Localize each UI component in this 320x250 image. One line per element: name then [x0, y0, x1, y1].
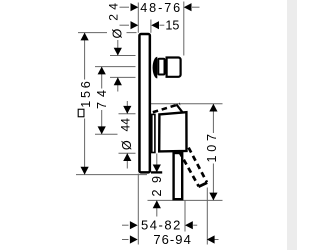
ext line dia24 top: [110, 55, 136, 57]
svg-text:15: 15: [165, 19, 179, 33]
dim line 74: [101, 67, 103, 135]
dim line 29: [156, 154, 158, 217]
lever grip: [174, 153, 183, 199]
arrow 54-82 right: [185, 221, 193, 229]
tail 48-76 right: [192, 6, 200, 8]
wall ext line below plate: [137, 174, 139, 245]
wall plate side profile: [139, 34, 149, 172]
tail 15 to text: [160, 24, 165, 26]
scrollbar strip: [287, 0, 297, 250]
svg-text:76-94: 76-94: [153, 232, 190, 247]
ext line knob axis: [95, 66, 136, 68]
ext line bottom common: [148, 199, 223, 201]
svg-text:24: 24: [106, 3, 120, 21]
lever rosette on plate: [152, 114, 155, 152]
arrow dia24 bottom: [114, 77, 122, 85]
arrow 76-94 left: [130, 235, 138, 243]
dashed swung handle top edge: [153, 104, 180, 112]
ext line sq156 top: [78, 32, 137, 34]
arrow dia24 top: [114, 48, 122, 56]
tail 76-94 right: [215, 239, 219, 241]
knob shaft: [158, 59, 164, 75]
svg-text:156: 156: [79, 81, 93, 108]
tail 54-82 left: [122, 224, 129, 226]
svg-text:54-82: 54-82: [141, 217, 180, 232]
ext line dia24 bottom: [110, 76, 136, 78]
arrow 107 bottom: [209, 193, 217, 201]
arrow dia44 top: [123, 106, 131, 114]
arrow dia44 bottom: [123, 153, 131, 161]
svg-text:74: 74: [95, 90, 109, 109]
square symbol of sq156: [78, 109, 84, 117]
dim line dia24: [117, 40, 119, 92]
ext line 54-82 right: [184, 200, 186, 231]
knob cylinder: [167, 58, 181, 77]
arrow 29 bottom: [153, 200, 161, 208]
svg-text:107: 107: [205, 134, 219, 163]
dim line dia44: [126, 101, 128, 169]
arrow 74 top: [98, 67, 106, 75]
svg-text:Ø: Ø: [120, 140, 134, 150]
ext line dia44 top: [119, 113, 136, 115]
svg-text:44: 44: [118, 118, 132, 132]
svg-text:48-76: 48-76: [140, 1, 180, 15]
arrow sq156 bottom: [81, 167, 89, 175]
ext line sq156 bottom: [76, 174, 147, 176]
lever handle base: [159, 112, 186, 151]
dashed swung grip end cap: [199, 183, 208, 187]
arrow 48-76 left: [131, 3, 139, 11]
arrow sq156 top: [81, 33, 89, 41]
solid corner of swung handle: [176, 104, 182, 112]
arrow 74 bottom: [98, 126, 106, 134]
ext line 107 top: [150, 103, 223, 105]
tail 48-76 left: [120, 6, 130, 8]
arrow 54-82 left: [130, 221, 138, 229]
knob base bulge: [153, 57, 158, 79]
dashed swung grip left edge: [179, 152, 199, 187]
ext line dia44 bottom: [119, 152, 136, 154]
tail 15 left: [120, 24, 130, 26]
arrow 15 right outer: [151, 21, 159, 29]
arrow 15 left outer: [131, 21, 139, 29]
ext line 48-76 right: [183, 2, 185, 56]
arrow 107 top: [209, 104, 217, 112]
wall ext line above plate: [137, 3, 139, 33]
arrow 48-76 right: [184, 3, 192, 11]
ext line 76-94 right: [206, 188, 208, 245]
ext line lever axis: [95, 133, 118, 135]
arrow 76-94 right: [207, 235, 215, 243]
ext line plate front 15: [150, 20, 152, 33]
tail 54-82 right: [193, 224, 197, 226]
svg-text:29: 29: [150, 176, 164, 197]
dim line sq156: [84, 33, 86, 175]
dim line 107: [212, 104, 214, 201]
plate bottom edge stub for 29 dim: [151, 171, 162, 173]
dashed swung grip right edge: [189, 148, 207, 183]
tail 76-94 left: [122, 239, 129, 241]
arrow 29 top: [153, 165, 161, 173]
svg-text:Ø: Ø: [110, 29, 124, 39]
